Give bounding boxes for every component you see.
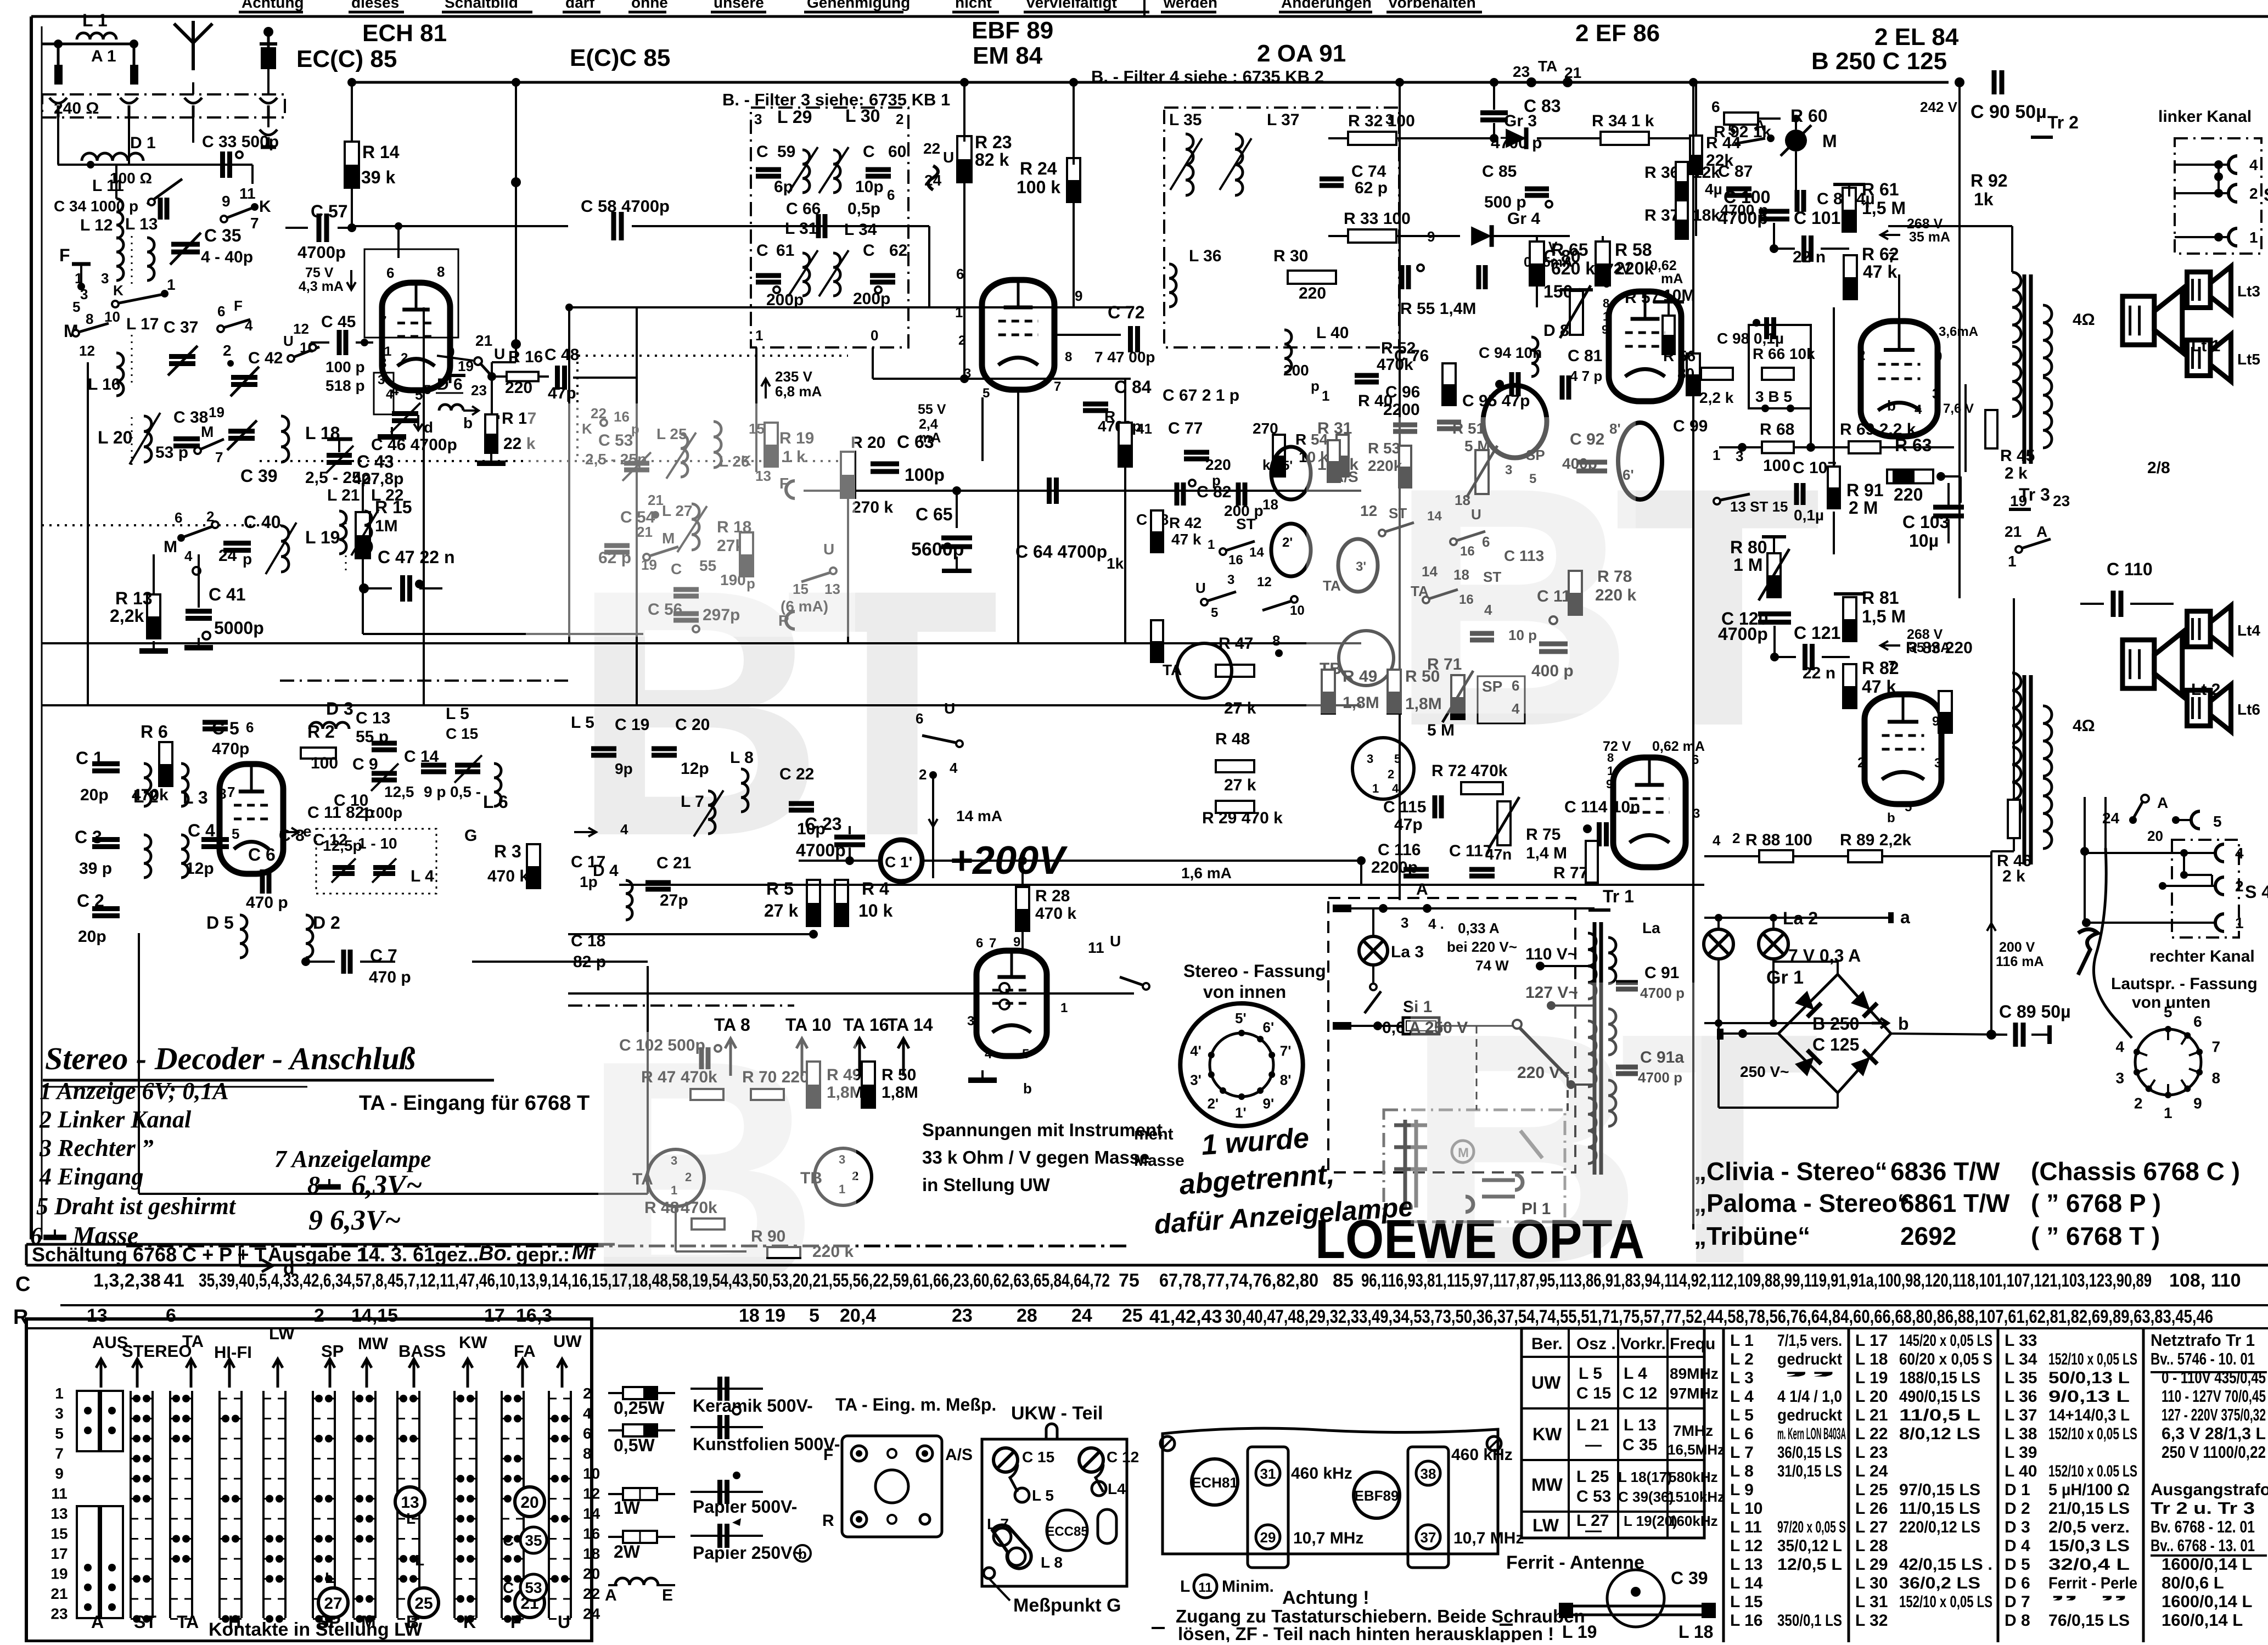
contact [2141,795,2149,802]
svg-text:11: 11 [51,1485,68,1502]
capacitor C116 [1404,867,1429,872]
junction [511,177,521,187]
wire [2031,1034,2050,1036]
contact column [396,1391,398,1618]
capacitor C115 [1433,795,1438,818]
svg-text:20,4: 20,4 [840,1305,876,1326]
svg-text:E(C)C 85: E(C)C 85 [570,44,670,71]
tube EL84 II [0,0,1,1]
svg-text:0,5 -: 0,5 - [450,783,481,800]
junction [504,1535,512,1543]
arrow TA 14 [898,1038,909,1076]
svg-text:L 10: L 10 [1730,1500,1763,1518]
junction [84,1584,92,1591]
arrow [761,379,770,398]
junction [232,1615,239,1623]
contact [875,287,882,293]
svg-text:42/0,15 LS .: 42/0,15 LS . [1899,1556,1992,1574]
junction [108,1427,116,1434]
svg-text:35,39,40,5,4,33,42,6,34,57,8,4: 35,39,40,5,4,33,42,6,34,57,8,45,7,12,11,… [199,1270,1110,1291]
svg-text:3: 3 [80,286,88,302]
svg-text:2,2k: 2,2k [110,606,144,626]
screw hole [920,1514,930,1524]
svg-text:C 37: C 37 [164,318,198,336]
svg-text:5: 5 [809,1305,819,1326]
resistor R44 [1690,136,1702,174]
svg-text:2: 2 [958,333,965,348]
svg-text:5: 5 [1211,605,1218,620]
svg-text:6: 6 [583,1425,592,1442]
wire [922,736,958,743]
svg-text:3: 3 [1934,756,1941,771]
svg-text:470 k: 470 k [1035,905,1076,923]
svg-text:C 21: C 21 [656,854,691,872]
arrow TA 16 [854,1038,865,1076]
junction [1806,443,1815,452]
svg-text:L 20: L 20 [98,428,132,447]
svg-text:L 19: L 19 [1562,1622,1597,1642]
tube [976,951,1047,1056]
contact [1379,530,1385,536]
svg-text:2': 2' [1207,1096,1219,1112]
svg-text:C: C [863,143,875,161]
svg-text:4 .: 4 . [1428,916,1444,932]
wire [1717,1023,1720,1108]
junction [366,1495,373,1503]
svg-text:U: U [558,1612,570,1632]
contact column [218,1391,221,1618]
wire [251,165,254,184]
svg-text:D 6: D 6 [437,375,463,394]
small tube [1338,539,1378,592]
coil L40 [1284,330,1292,373]
junction [359,583,369,593]
wire [30,16,33,1239]
wire [1773,961,1838,963]
svg-text:3: 3 [101,270,109,287]
capacitor C40 [223,541,251,546]
junction [133,1475,141,1483]
wire [928,226,930,307]
svg-text:U: U [283,333,294,349]
svg-text:TA: TA [1163,661,1182,678]
wire [799,860,880,862]
svg-text:R 4: R 4 [862,879,889,899]
coil [181,835,188,878]
svg-text:100: 100 [1763,457,1790,475]
wire [2023,675,2026,864]
svg-text:8/0,12 LS: 8/0,12 LS [1899,1425,1980,1443]
svg-text:5: 5 [424,383,431,397]
junction [325,1615,333,1623]
svg-text:1W: 1W [614,1498,641,1518]
svg-text:6861 T/W: 6861 T/W [1900,1189,2010,1217]
resistor R48 [1216,760,1254,772]
svg-text:Papier 500V-: Papier 500V- [693,1497,797,1517]
svg-text:U: U [944,700,955,717]
socket pin [2134,1069,2140,1076]
junction [922,1450,928,1457]
wire [563,11,600,14]
svg-text:C 58 4700p: C 58 4700p [581,196,670,216]
svg-text:100 k: 100 k [1017,177,1060,197]
coil L36 [1169,264,1176,307]
coil [2012,346,2021,417]
junction [2129,816,2137,824]
capacitor C54 [604,543,630,548]
svg-text:R 72 470k: R 72 470k [1431,762,1508,780]
wire [351,82,353,142]
svg-text:C 77: C 77 [1168,419,1203,437]
svg-text:R 34 1 k: R 34 1 k [1592,112,1654,130]
wire [2011,226,2013,272]
resistor R89 [1848,850,1882,862]
arrow [186,1359,196,1388]
svg-text:460 kHz: 460 kHz [1451,1446,1513,1464]
wire [338,439,340,452]
svg-text:3: 3 [1401,914,1408,931]
junction [1567,1080,1575,1089]
svg-text:7: 7 [1888,658,1896,674]
dotted line [578,355,848,357]
svg-text:G: G [464,827,477,845]
junction [143,1415,150,1423]
svg-text:427,8p: 427,8p [352,470,403,488]
junction [143,1495,150,1503]
contact [956,740,963,747]
coil L35 [1186,134,1193,195]
svg-text:4 7 p: 4 7 p [1570,368,1602,384]
resistor R2 [301,748,336,759]
svg-text:38: 38 [1421,1466,1436,1482]
capacitor C7 [341,950,346,974]
svg-text:2 Linker Kanal: 2 Linker Kanal [39,1106,192,1133]
wire [267,117,270,127]
junction [652,511,659,519]
wire [1386,11,1482,14]
switch F [0,0,1,1]
svg-text:31: 31 [1260,1466,1276,1482]
small tube [1271,524,1311,576]
svg-text:TA - Eingang für 6768 T: TA - Eingang für 6768 T [359,1092,590,1115]
junction [54,40,63,48]
wire [447,374,465,377]
wire [261,145,276,149]
wire [619,884,1704,886]
svg-text:C 115: C 115 [1383,798,1426,816]
svg-text:5': 5' [1282,458,1293,473]
socket pin 8' [1268,1071,1275,1078]
junction [347,223,356,232]
capacitor C81 [1560,375,1565,400]
contact column [453,1391,456,1618]
wire [351,188,353,226]
svg-text:B. - Filter 3 siehe: 6735 KB 1: B. - Filter 3 siehe: 6735 KB 1 [722,90,950,109]
junction [172,1535,180,1543]
svg-text:4: 4 [985,1047,992,1062]
wire [285,227,308,229]
wire [1898,274,1900,296]
svg-text:55 V: 55 V [918,402,946,417]
wire [449,368,452,383]
svg-text:A/S: A/S [945,1446,973,1464]
svg-text:L 30: L 30 [1855,1574,1888,1592]
resistor R54 [1328,440,1340,482]
wire [1073,82,1075,165]
junction [561,1435,569,1442]
junction [276,1575,283,1583]
wire [2047,1025,2052,1044]
svg-text:4 Eingang: 4 Eingang [39,1163,144,1190]
svg-text:3 B 5: 3 B 5 [1755,388,1792,405]
arrow [518,1359,527,1388]
svg-text:2: 2 [1388,767,1394,781]
svg-text:13: 13 [401,1494,419,1512]
diode Gr4 [1471,226,1491,245]
svg-text:D 2: D 2 [313,913,340,933]
svg-text:4 1/4 / 1,0: 4 1/4 / 1,0 [1777,1388,1842,1406]
junction [1761,405,1769,412]
svg-text:L 7: L 7 [681,793,704,811]
svg-text:L 13: L 13 [1730,1556,1763,1574]
svg-text:152/10 x 0,05 LS: 152/10 x 0,05 LS [1899,1593,1992,1611]
junction [409,1395,417,1402]
wire [2084,797,2086,851]
wire [397,226,400,258]
svg-text:470k: 470k [132,786,169,804]
svg-text:2: 2 [401,351,408,366]
wire [1833,512,1835,554]
svg-text:F: F [510,1612,521,1632]
junction [172,1395,180,1402]
resistor R43 [1151,620,1163,662]
pot R55 [1570,291,1583,335]
svg-text:R 2: R 2 [307,722,335,742]
coil L21 [339,511,346,554]
svg-text:C 47 22 n: C 47 22 n [378,547,455,567]
coil L2 [144,763,151,806]
svg-text:d: d [283,1258,295,1279]
wire [306,961,335,963]
resistor R90 [767,1247,800,1258]
svg-text:a: a [1900,907,1910,927]
wire [1883,855,1991,857]
resistor R3 [527,844,540,888]
capacitor C87 [1726,187,1751,192]
wire [1719,1107,1838,1109]
arrow TA 8 [725,1038,736,1076]
junction [108,1603,116,1611]
svg-text:9: 9 [222,193,231,210]
resistor R64 [1701,368,1733,380]
capacitor C41 [186,609,212,614]
wire [87,362,89,705]
svg-text:22 n: 22 n [1793,248,1826,266]
svg-text:D 5: D 5 [2005,1556,2030,1574]
svg-text:6: 6 [2193,1013,2202,1030]
wire [2013,598,2015,800]
junction [400,1395,407,1402]
wire [192,117,194,143]
svg-text:ment: ment [1134,1125,1174,1143]
svg-text:3: 3 [967,1014,974,1029]
svg-text:L 29: L 29 [1855,1556,1888,1574]
svg-text:L 21: L 21 [327,486,360,504]
wire [1351,1025,1403,1027]
contact [1143,983,1149,990]
junction [514,1495,521,1503]
arrow [1880,641,1900,650]
svg-text:11: 11 [239,185,256,202]
svg-text:220/0,12 LS: 220/0,12 LS [1899,1518,1980,1536]
junction [356,1435,363,1442]
terminal C1' [880,840,922,882]
svg-text:UW: UW [1531,1373,1561,1393]
svg-text:A: A [1416,880,1428,899]
wire [755,347,757,472]
hole [993,1528,1011,1546]
svg-text:12: 12 [293,321,309,337]
arrow [1987,923,1996,943]
wire [327,437,352,441]
tube ECH81 hole [1192,1459,1238,1505]
svg-text:5 µH/100 Ω: 5 µH/100 Ω [2048,1481,2130,1499]
jack contact [2191,811,2200,829]
svg-text:La 3: La 3 [1391,943,1424,961]
junction [133,1435,141,1442]
junction [467,1595,474,1603]
resistor R70 [751,1089,784,1100]
svg-text:C 82: C 82 [1197,483,1231,501]
junction [400,1555,407,1563]
svg-text:R 14: R 14 [362,142,400,162]
coil [1608,1080,1616,1126]
wire [989,1579,1010,1601]
svg-text:5: 5 [2164,1003,2172,1020]
wire [1455,531,1485,541]
svg-text:B 250 C 125: B 250 C 125 [1811,48,1947,75]
svg-text:ohne: ohne [631,0,668,11]
junction [1753,319,1760,327]
svg-text:C 33 500p: C 33 500p [202,133,279,151]
svg-text:Genehmigung: Genehmigung [807,0,910,11]
junction [232,1535,239,1543]
wire [1536,236,1538,242]
svg-text:152/10 x 0,05 LS: 152/10 x 0,05 LS [2048,1350,2137,1368]
svg-text:L 14: L 14 [1730,1574,1763,1592]
svg-text:2: 2 [2249,185,2258,202]
svg-text:Schaltbild: Schaltbild [445,0,518,11]
svg-text:11: 11 [1198,1580,1212,1595]
svg-text:7: 7 [2211,1038,2220,1056]
trimmer C9 [372,771,397,776]
svg-text:Lt4: Lt4 [2237,622,2260,639]
junction [2214,189,2223,198]
capacitor C14 [421,763,446,768]
svg-text:b: b [1023,1080,1032,1097]
svg-text:1: 1 [1713,447,1720,463]
box UKW [982,1439,1127,1586]
box R66 [1749,325,1811,408]
junction [457,1395,464,1402]
svg-text:74 W: 74 W [1475,957,1509,974]
wire [1161,11,1216,14]
svg-text:C 34 1000 p: C 34 1000 p [54,198,138,215]
svg-text:4700 p: 4700 p [1491,134,1542,152]
junction [1373,1021,1382,1030]
wire [1794,446,1849,448]
svg-text:200: 200 [1283,362,1309,379]
svg-text:350/0,1 LS: 350/0,1 LS [1777,1612,1842,1630]
loudspeaker Lt6 [2187,690,2211,726]
svg-text:72 V: 72 V [1603,739,1631,754]
svg-text:b: b [1887,397,1896,414]
jack contact [2215,844,2224,862]
svg-text:17: 17 [50,1545,68,1562]
ground [490,453,492,463]
svg-text:L 38: L 38 [2005,1425,2037,1443]
decorative [1411,982,1702,1224]
resistor R28 [1016,887,1029,931]
junction [565,304,573,311]
socket TA [647,1149,704,1206]
resistor R72 [1461,782,1503,794]
svg-text:12p: 12p [681,760,709,778]
junction [325,1395,333,1402]
wire [1822,656,1850,658]
circled 37 [1416,1525,1440,1549]
svg-text:6: 6 [175,509,182,526]
wire [1717,918,1720,930]
svg-text:4: 4 [583,1405,592,1422]
wire [1775,656,1796,658]
arrow TA 10 [796,1038,807,1076]
contact [1423,597,1429,603]
junction [1787,405,1794,412]
svg-text:C 13: C 13 [356,709,390,727]
wire [1947,483,1950,506]
contact drawing [1466,1175,1523,1212]
decorative [571,417,1822,1360]
svg-text:5: 5 [1394,752,1401,766]
junction [1563,77,1573,87]
wire [41,26,43,1239]
svg-text:24: 24 [583,1605,600,1622]
svg-text:C: C [756,242,768,260]
decorative [598,1032,856,1257]
wire [1833,183,1865,186]
wire [1653,300,1684,304]
svg-text:L 6: L 6 [483,792,508,812]
svg-text:27 k: 27 k [764,901,798,920]
socket TB [815,1148,872,1205]
resistor R36 [1676,162,1688,200]
svg-text:L 4: L 4 [411,867,434,885]
svg-text:20p: 20p [80,786,109,804]
wire [1124,379,1126,422]
svg-text:2: 2 [2235,878,2244,895]
svg-text:2/0,5 verz.: 2/0,5 verz. [2048,1518,2130,1536]
svg-text:b: b [463,414,473,431]
svg-text:1M: 1M [375,517,398,535]
junction [960,78,969,87]
svg-text:2692: 2692 [1900,1222,1956,1250]
capacitor [1992,70,1997,94]
svg-text:1: 1 [75,270,82,287]
svg-text:L 18(17): L 18(17) [1618,1469,1672,1485]
svg-text:Stereo - Fassung: Stereo - Fassung [1183,961,1326,981]
svg-text:KW: KW [1532,1424,1562,1444]
